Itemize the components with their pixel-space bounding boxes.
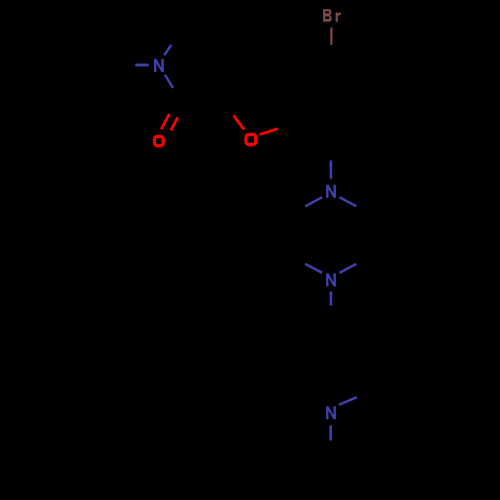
wire: furan O to C2 (O half) bbox=[234, 116, 245, 130]
atom label N (piperazine N4) bbox=[326, 273, 336, 286]
wire: C7 to piperazine N1 (N half) bbox=[330, 161, 333, 179]
wire: amide N to carbonyl C (N half) bbox=[165, 75, 173, 88]
atom label O (carbonyl) bbox=[154, 136, 163, 146]
wire: C=O double bond main line (O half) bbox=[161, 114, 169, 129]
wire: amide N to upper-right methyl (N half) bbox=[164, 45, 171, 56]
atom label Br bbox=[323, 9, 341, 22]
atom label O (furan) bbox=[246, 134, 256, 144]
wire: piperazine N4 to chain CH2 (N half) bbox=[330, 292, 333, 306]
wire: furan O to C7a (O half) bbox=[260, 129, 278, 135]
wire: piperazine N4 to C5 (N half) bbox=[305, 264, 322, 273]
wire: amide N to left methyl (N half) bbox=[135, 64, 149, 67]
wire: C=O double bond inner line (O half) bbox=[171, 117, 178, 130]
atom label N (dimethylamino chain) bbox=[326, 406, 336, 419]
wire: piperazine N1 to C6 (N half) bbox=[305, 197, 322, 206]
wire: chain N to CH2 (N half) bbox=[339, 397, 357, 405]
wire: piperazine N4 to C3 (N half) bbox=[339, 264, 356, 273]
atom label N (amide) bbox=[154, 59, 164, 72]
wire: piperazine N1 to C2 (N half) bbox=[339, 197, 356, 206]
wire: Br to C5 bond (Br half) bbox=[330, 28, 332, 45]
wire: chain N to methyl (N half) bbox=[329, 426, 332, 441]
atom label N (piperazine N1) bbox=[326, 185, 336, 198]
